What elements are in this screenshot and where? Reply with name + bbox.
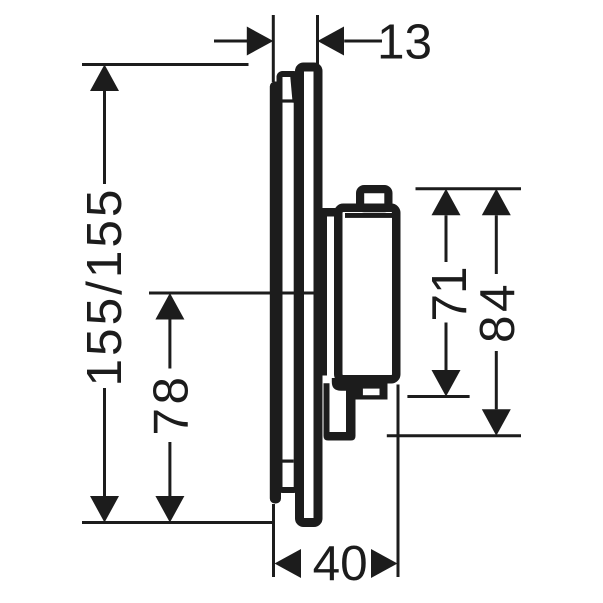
svg-text:40: 40 bbox=[313, 536, 368, 591]
svg-text:84: 84 bbox=[470, 281, 525, 343]
svg-text:71: 71 bbox=[422, 266, 477, 321]
svg-text:155/155: 155/155 bbox=[77, 187, 132, 387]
svg-text:78: 78 bbox=[144, 373, 199, 435]
svg-text:13: 13 bbox=[377, 15, 432, 70]
